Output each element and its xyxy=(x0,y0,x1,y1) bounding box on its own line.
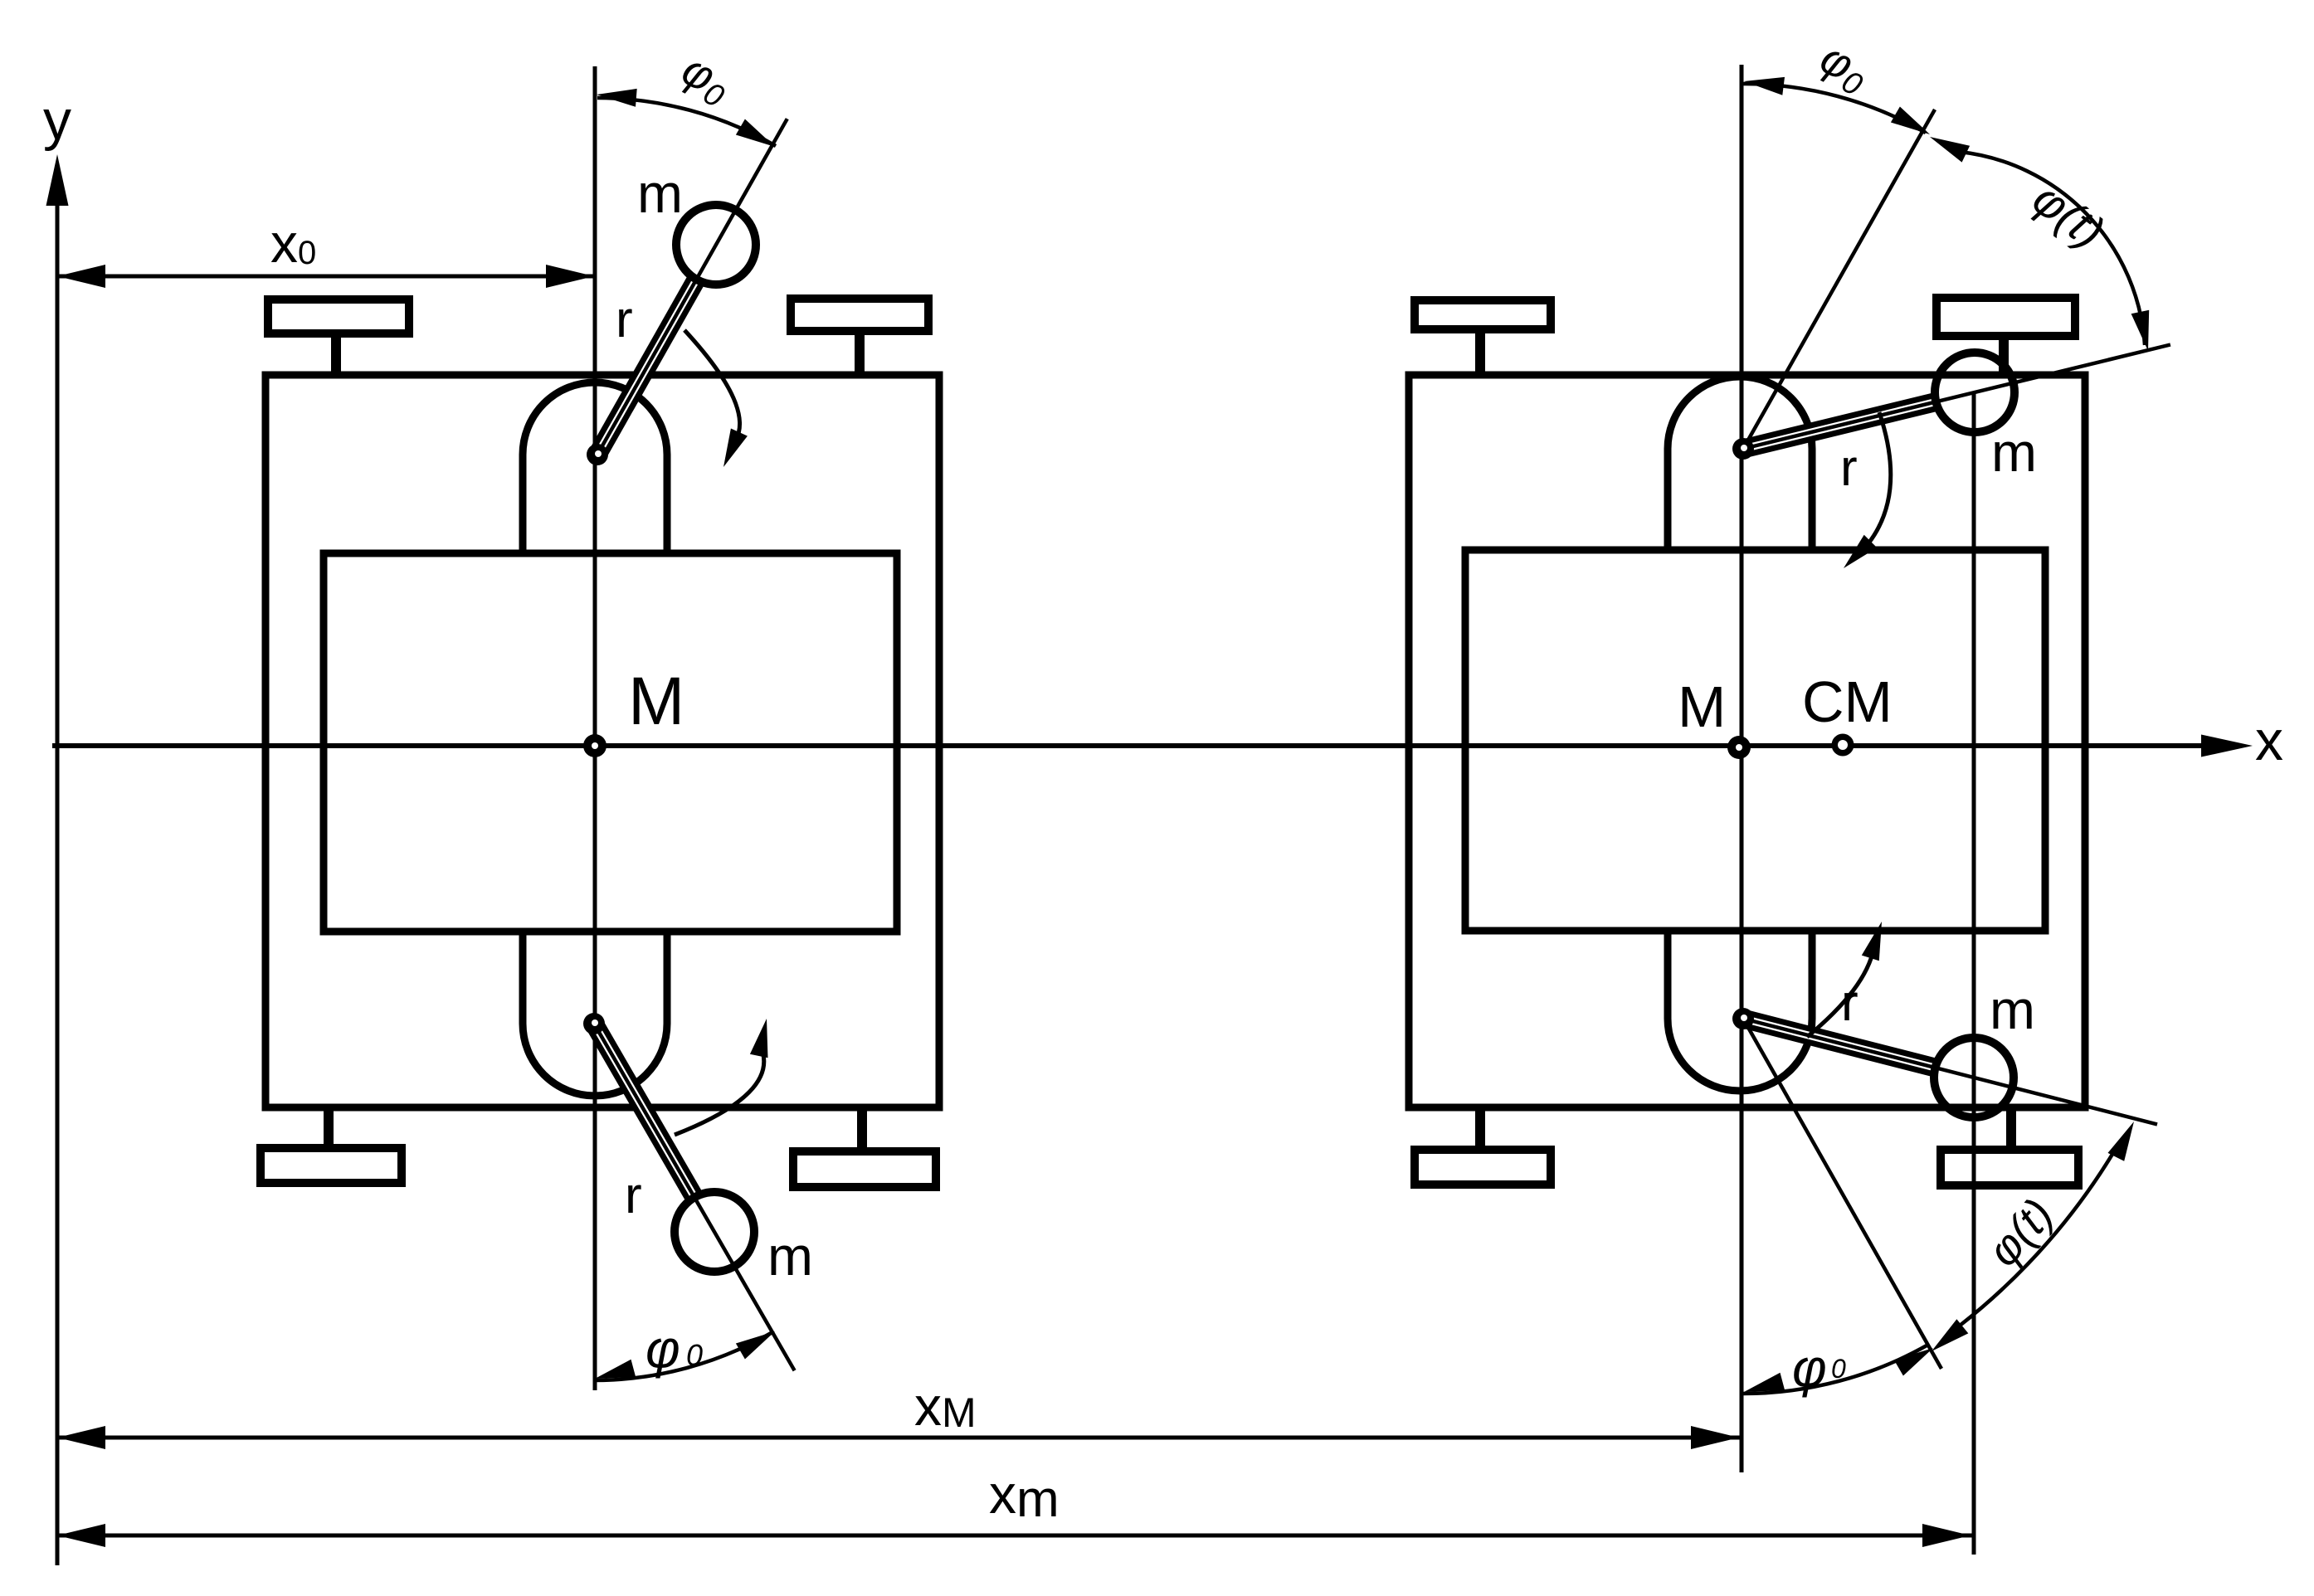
combined center of mass dot CM xyxy=(1832,734,1854,757)
left top eccentric mass m xyxy=(676,205,756,285)
left bottom rotor arm r xyxy=(594,1024,795,1370)
svg-text:φ: φ xyxy=(645,1319,680,1379)
svg-text:M: M xyxy=(1678,674,1726,739)
right cart bottom rotor housing xyxy=(1668,932,1812,1091)
left cart body xyxy=(266,375,939,1107)
right bottom rotor arm r xyxy=(1743,1019,2157,1124)
left bottom eccentric mass m xyxy=(675,1192,754,1272)
svg-text:r: r xyxy=(1840,440,1858,497)
svg-text:x: x xyxy=(2255,709,2283,772)
svg-text:CM: CM xyxy=(1802,669,1893,734)
initial-angle reference line (right top) xyxy=(1743,109,1935,449)
dimension line x0 xyxy=(57,265,594,288)
center of mass dot M (left cart) xyxy=(583,734,607,757)
left cart front-left wheel xyxy=(268,299,409,378)
right cart mass block M xyxy=(1465,550,2045,931)
left cart front-right wheel xyxy=(791,299,928,378)
svg-text:r: r xyxy=(625,1167,642,1224)
y-axis xyxy=(46,154,69,1565)
right bottom eccentric mass m xyxy=(1934,1038,2014,1117)
right cart front-right wheel xyxy=(1936,298,2075,375)
rotation arrow (left top rotor) xyxy=(684,330,748,467)
svg-text:m: m xyxy=(637,163,683,224)
rotation arrow (right top rotor) xyxy=(1844,412,1891,568)
left cart rear-left wheel xyxy=(261,1106,402,1183)
svg-text:r: r xyxy=(616,291,633,348)
svg-text:M: M xyxy=(628,664,684,739)
left top rotor arm r xyxy=(597,119,787,455)
right top pivot xyxy=(1732,438,1754,460)
svg-text:m: m xyxy=(1990,979,2035,1040)
angle arc phi0 (left bottom) xyxy=(594,1331,775,1380)
left bottom pivot xyxy=(583,1013,605,1034)
left cart centerline xyxy=(593,66,597,1390)
rotation arrow (left bottom rotor) xyxy=(675,1019,768,1135)
dimension line x_M xyxy=(57,1426,1741,1449)
right bottom pivot xyxy=(1732,1008,1754,1029)
angle arc phi(t) (right bottom) xyxy=(1932,1122,2134,1351)
angle arc phi(t) (right top) xyxy=(1930,137,2149,351)
right top eccentric mass m xyxy=(1935,353,2014,432)
angle arc phi0 (left top) xyxy=(597,89,776,147)
angle arc phi0 (right bottom) xyxy=(1743,1345,1933,1394)
svg-text:φ: φ xyxy=(1792,1338,1827,1398)
left cart rear-right wheel xyxy=(793,1106,936,1187)
svg-text:0: 0 xyxy=(1831,1354,1846,1384)
left cart top rotor housing xyxy=(523,382,667,552)
right cart front-left wheel xyxy=(1415,300,1551,378)
left cart mass block M xyxy=(324,553,897,932)
right top rotor arm r xyxy=(1743,345,2170,450)
initial-angle reference line (right bottom) xyxy=(1743,1019,1941,1369)
svg-text:xm: xm xyxy=(989,1463,1060,1528)
x-axis xyxy=(52,735,2253,757)
svg-text:y: y xyxy=(43,89,71,152)
angle arc phi0 (right top) xyxy=(1743,77,1930,134)
left top pivot xyxy=(587,444,608,465)
vertical reference line through m (x_m line) xyxy=(1972,392,1976,1555)
right cart top rotor housing xyxy=(1668,377,1812,548)
svg-text:0: 0 xyxy=(686,1338,703,1372)
right cart rear-right wheel xyxy=(1941,1106,2078,1185)
right cart rear-left wheel xyxy=(1415,1106,1551,1185)
right cart body xyxy=(1409,375,2085,1107)
svg-text:m: m xyxy=(767,1225,813,1287)
left cart bottom rotor housing xyxy=(523,933,667,1096)
right cart centerline xyxy=(1740,65,1744,1472)
svg-text:m: m xyxy=(1991,421,2037,483)
center of mass dot M (right cart) xyxy=(1727,736,1751,759)
dimension line x_m xyxy=(57,1524,1972,1547)
rotation arrow (right bottom rotor) xyxy=(1807,922,1882,1037)
